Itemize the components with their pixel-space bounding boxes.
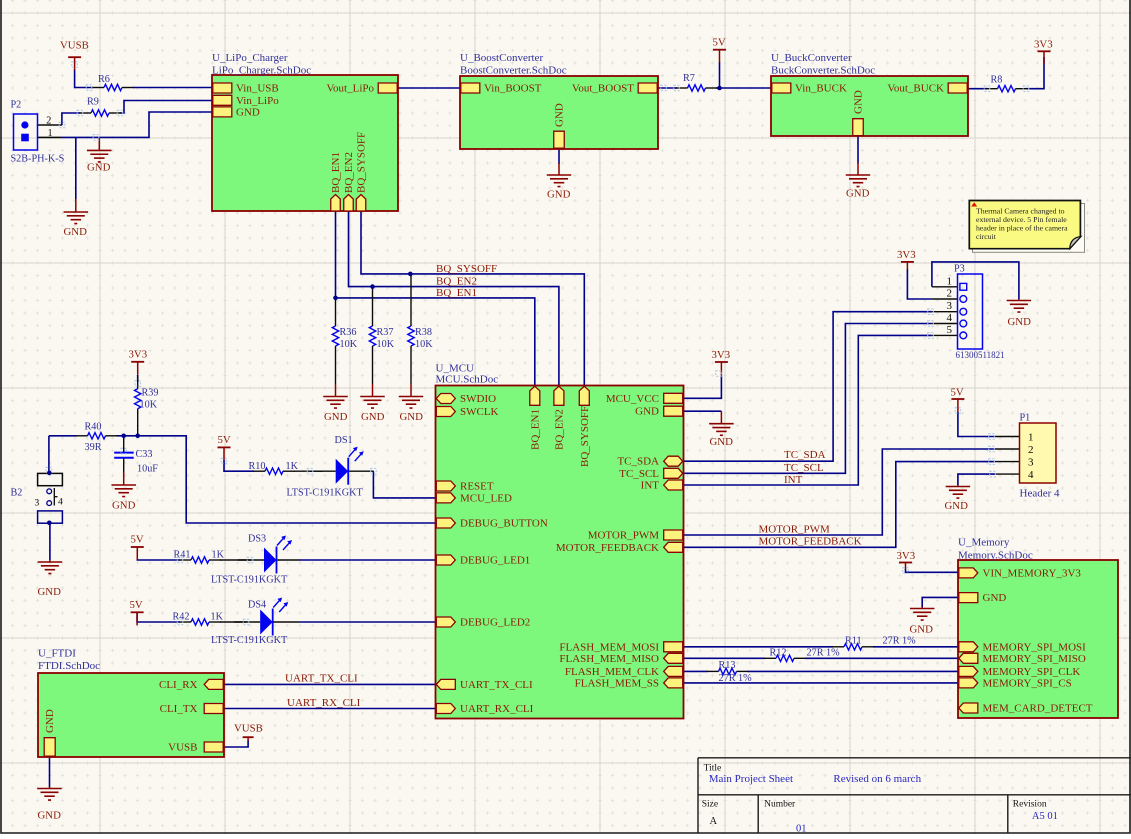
ground under buck <box>857 163 859 176</box>
svg-text:BQ_SYSOFF: BQ_SYSOFF <box>356 132 368 193</box>
wire 3V3 to VIN_MEMORY_3V3 <box>906 569 958 572</box>
entry GND memory <box>959 593 978 603</box>
svg-text:3V3: 3V3 <box>897 550 916 562</box>
entry VIN_MEMORY_3V3 <box>959 568 978 578</box>
svg-text:GND: GND <box>38 586 62 598</box>
junction R39 node <box>135 434 140 439</box>
wire Vout_BOOST to R7 to Vin_BUCK <box>658 87 677 89</box>
svg-text:LTST-C191KGKT: LTST-C191KGKT <box>211 575 288 586</box>
wire R40-C33-R39 node row <box>49 435 77 437</box>
sheet symbol U_BuckConverter <box>771 76 968 136</box>
wire P3 pin1 to GND <box>932 262 1019 299</box>
wire 5V to P1 pin1 <box>958 412 995 437</box>
wire memory GND <box>922 597 957 607</box>
power port VUSB FTDI <box>243 736 254 738</box>
sheet symbol U_BoostConverter <box>460 76 658 149</box>
wire MCU_VCC to 3V3 <box>684 375 722 398</box>
svg-text:MOTOR_PWM: MOTOR_PWM <box>759 524 831 536</box>
entry MEMORY_SPI_CLK <box>959 666 978 676</box>
svg-text:U_LiPo_Charger: U_LiPo_Charger <box>212 52 288 64</box>
resistor R6 <box>104 84 122 90</box>
wire P1 pin leads <box>995 436 1020 438</box>
svg-text:5V: 5V <box>130 599 143 611</box>
junction 5V-R7 <box>717 86 722 91</box>
svg-text:A: A <box>710 816 718 827</box>
svg-text:DS1: DS1 <box>335 435 353 446</box>
ground under R38 <box>410 384 412 397</box>
svg-text:3V3: 3V3 <box>897 249 916 261</box>
entry BQ_SYSOFF LiPo <box>356 195 366 212</box>
entry FLASH_MEM_MISO <box>664 653 683 663</box>
power port VUSB <box>68 56 81 58</box>
svg-text:TC_SCL: TC_SCL <box>619 468 659 480</box>
entry MOTOR_PWM <box>664 530 683 540</box>
resistor R8 <box>998 86 1016 92</box>
wire CLI_RX to UART_TX_CLI <box>224 683 436 685</box>
svg-text:GND: GND <box>324 411 348 423</box>
svg-text:RESET: RESET <box>460 481 494 493</box>
ground under R9 <box>98 137 100 150</box>
svg-text:C33: C33 <box>136 449 153 460</box>
svg-text:DEBUG_LED2: DEBUG_LED2 <box>460 617 530 629</box>
svg-text:MCU_LED: MCU_LED <box>460 492 512 504</box>
svg-text:39R: 39R <box>85 442 102 453</box>
wire BQ_EN2 column <box>349 211 559 386</box>
svg-text:FLASH_MEM_CLK: FLASH_MEM_CLK <box>565 666 659 678</box>
resistor R12 <box>776 655 794 661</box>
entry MCU_VCC <box>664 393 683 403</box>
svg-text:GND: GND <box>44 709 56 733</box>
svg-text:VUSB: VUSB <box>234 723 263 735</box>
resistor R7 <box>688 85 706 91</box>
svg-text:27R 1%: 27R 1% <box>719 673 753 684</box>
svg-text:GND: GND <box>846 188 870 200</box>
svg-text:BQ_EN2: BQ_EN2 <box>553 409 565 450</box>
svg-text:INT: INT <box>784 474 803 486</box>
entry UART_TX_CLI MCU <box>436 679 455 689</box>
svg-text:A5 01: A5 01 <box>1032 811 1058 822</box>
svg-text:S2B-PH-K-S: S2B-PH-K-S <box>11 154 65 165</box>
svg-text:U_Memory: U_Memory <box>958 537 1010 549</box>
power port 3V3 memory <box>899 562 912 564</box>
svg-text:DS4: DS4 <box>248 600 266 611</box>
entry CLI_RX <box>204 679 223 689</box>
svg-text:BQ_EN1: BQ_EN1 <box>330 152 342 193</box>
wire P1 pin4 to GND <box>958 474 995 485</box>
junction B2 top <box>47 471 52 476</box>
svg-text:Revision: Revision <box>1013 800 1047 810</box>
entry RESET <box>436 481 455 491</box>
svg-text:UART_RX_CLI: UART_RX_CLI <box>287 697 361 709</box>
svg-text:27R 1%: 27R 1% <box>883 636 917 647</box>
svg-text:27R 1%: 27R 1% <box>807 648 841 659</box>
svg-text:CLI_TX: CLI_TX <box>160 703 198 715</box>
svg-text:MCU.SchDoc: MCU.SchDoc <box>436 374 499 386</box>
svg-text:Number: Number <box>764 800 796 810</box>
svg-text:1K: 1K <box>211 612 224 623</box>
ground P3 pin1 <box>1018 299 1020 301</box>
svg-text:VUSB: VUSB <box>168 742 197 754</box>
svg-text:FLASH_MEM_SS: FLASH_MEM_SS <box>575 677 659 689</box>
svg-text:P2: P2 <box>11 100 22 111</box>
wire BQ_EN1 column <box>336 211 535 386</box>
svg-text:MEMORY_SPI_CS: MEMORY_SPI_CS <box>983 677 1072 689</box>
svg-text:R42: R42 <box>173 612 190 623</box>
entry Vin_BOOST <box>461 83 480 93</box>
svg-text:R13: R13 <box>719 660 736 671</box>
entry GND buck <box>853 119 864 136</box>
svg-text:MOTOR_PWM: MOTOR_PWM <box>588 530 660 542</box>
svg-text:Size: Size <box>702 800 718 810</box>
svg-text:VIN_MEMORY_3V3: VIN_MEMORY_3V3 <box>983 567 1082 579</box>
svg-text:3: 3 <box>35 499 40 509</box>
entry DEBUG_LED2 <box>436 617 455 627</box>
svg-text:10K: 10K <box>140 400 158 411</box>
svg-text:10uF: 10uF <box>137 464 158 475</box>
svg-text:2: 2 <box>46 115 51 126</box>
entry INT <box>664 480 683 490</box>
svg-text:5V: 5V <box>951 387 964 399</box>
ground under boost <box>558 163 560 175</box>
svg-text:GND: GND <box>38 810 62 822</box>
svg-text:DS3: DS3 <box>248 534 266 545</box>
svg-text:circuit: circuit <box>976 232 997 241</box>
wire 5V DS1 <box>224 460 254 471</box>
svg-text:U_FTDI: U_FTDI <box>38 648 76 660</box>
svg-text:BQ_SYSOFF: BQ_SYSOFF <box>436 263 497 275</box>
svg-text:R36: R36 <box>340 327 357 338</box>
svg-text:SWCLK: SWCLK <box>460 406 499 418</box>
entry BQ_EN2 MCU <box>554 386 564 405</box>
svg-text:5V: 5V <box>713 37 726 49</box>
svg-text:1K: 1K <box>212 550 225 561</box>
svg-text:01: 01 <box>796 824 807 835</box>
resistor R42 <box>191 619 209 625</box>
wire VUSB to R6 to Vin_USB <box>75 70 93 88</box>
svg-text:UART_TX_CLI: UART_TX_CLI <box>285 673 358 685</box>
svg-text:4: 4 <box>947 312 953 324</box>
entry TC_SDA <box>664 456 683 466</box>
entry GND FTDI <box>44 738 55 757</box>
power port 5V boost <box>713 49 726 51</box>
wire P2 pin1 to GND entry <box>38 136 62 138</box>
svg-text:R38: R38 <box>415 327 432 338</box>
svg-text:TC_SDA: TC_SDA <box>617 456 659 468</box>
svg-text:1: 1 <box>947 275 953 287</box>
wire DS3 to DEBUG_LED1 <box>299 559 436 561</box>
svg-text:P1: P1 <box>1020 413 1031 424</box>
entry MEMORY_SPI_MOSI <box>959 642 978 652</box>
svg-text:4: 4 <box>58 498 63 508</box>
wire INT to P3 pin5 <box>684 335 932 485</box>
ground MCU GND <box>720 411 722 424</box>
svg-text:BQ_EN2: BQ_EN2 <box>343 152 355 193</box>
wire FLASH_MEM_CLK R13 <box>684 670 708 672</box>
entry FLASH_MEM_CLK <box>664 666 683 676</box>
svg-text:4: 4 <box>1028 469 1034 481</box>
svg-text:Vout_BUCK: Vout_BUCK <box>887 83 944 95</box>
ground memory <box>921 607 923 609</box>
svg-text:2: 2 <box>1028 444 1034 456</box>
connector P3 <box>958 274 983 349</box>
resistor R10 <box>265 468 283 474</box>
svg-text:3V3: 3V3 <box>129 349 148 361</box>
svg-text:3: 3 <box>947 300 953 312</box>
svg-text:FTDI.SchDoc: FTDI.SchDoc <box>38 660 100 672</box>
header P1 <box>1020 423 1057 483</box>
wire B2 bottom to GND <box>49 523 51 560</box>
wire 5V DS4 <box>137 613 180 622</box>
svg-text:INT: INT <box>641 480 660 492</box>
ground under B2 <box>49 560 51 562</box>
svg-text:BQ_EN2: BQ_EN2 <box>436 276 477 288</box>
svg-text:GND: GND <box>710 436 734 448</box>
LED DS1 <box>310 470 336 472</box>
svg-text:Title: Title <box>704 764 722 774</box>
entry BQ_EN2 LiPo <box>344 195 354 212</box>
svg-text:GND: GND <box>1008 316 1032 328</box>
svg-text:Vin_BOOST: Vin_BOOST <box>484 83 542 95</box>
svg-text:R10: R10 <box>249 461 266 472</box>
ground FTDI <box>49 787 51 789</box>
power port 3V3 MCU_VCC <box>715 361 728 363</box>
ground P1 pin4 <box>957 485 959 487</box>
sheet symbol U_LiPo_Charger <box>212 75 398 211</box>
svg-text:MOTOR_FEEDBACK: MOTOR_FEEDBACK <box>759 536 862 548</box>
svg-text:Memory.SchDoc: Memory.SchDoc <box>958 550 1033 562</box>
ground under R36 <box>335 384 337 397</box>
resistor R9 <box>91 110 109 116</box>
entry SWDIO <box>436 394 455 404</box>
wire Vout_BUCK to R8 to 3V3 <box>968 88 987 90</box>
entry MOTOR_FEEDBACK <box>664 542 683 552</box>
wire boost GND <box>558 149 560 164</box>
power port 5V P1 <box>951 398 964 400</box>
svg-text:GND: GND <box>983 592 1007 604</box>
entry TC_SCL <box>664 468 683 478</box>
svg-text:DEBUG_BUTTON: DEBUG_BUTTON <box>460 518 548 530</box>
svg-text:MOTOR_FEEDBACK: MOTOR_FEEDBACK <box>556 542 659 554</box>
svg-text:BuckConverter.SchDoc: BuckConverter.SchDoc <box>771 65 875 77</box>
svg-text:Vin_LiPo: Vin_LiPo <box>236 95 279 107</box>
svg-text:3V3: 3V3 <box>712 349 731 361</box>
wire TC_SCL to P3 pin4 <box>684 324 932 474</box>
title block frame <box>698 757 1131 759</box>
wire MCU GND <box>684 410 722 412</box>
sheet symbol U_FTDI <box>38 673 224 757</box>
entry CLI_TX <box>204 704 223 714</box>
junction BQ_SYSOFF-R38 <box>408 272 413 277</box>
svg-text:1: 1 <box>1028 431 1034 443</box>
svg-text:GND: GND <box>910 624 934 636</box>
entry Vin_BUCK <box>772 83 791 93</box>
power port 5V DS1 <box>218 446 231 448</box>
entry Vout_BOOST <box>638 83 657 93</box>
wire pin1 down to GND <box>75 137 77 199</box>
svg-text:Revised on 6 march: Revised on 6 march <box>833 773 921 785</box>
svg-text:1K: 1K <box>286 461 299 472</box>
entry GND boost <box>554 131 565 148</box>
entry GND LiPo <box>213 107 232 117</box>
push button B2 <box>38 473 63 485</box>
entry VUSB FTDI <box>204 742 223 752</box>
svg-text:GND: GND <box>361 411 385 423</box>
junction BQ_EN2-R37 <box>370 284 375 289</box>
junction B2 bottom <box>47 521 52 526</box>
ground under C33 <box>123 473 125 486</box>
resistor R36 <box>332 326 338 346</box>
svg-text:LTST-C191KGKT: LTST-C191KGKT <box>287 488 364 499</box>
wire FLASH_MEM_SS <box>684 682 958 684</box>
wire 5V DS3 <box>137 559 180 560</box>
svg-text:MEMORY_SPI_MOSI: MEMORY_SPI_MOSI <box>983 641 1087 653</box>
svg-text:U_BoostConverter: U_BoostConverter <box>460 52 543 64</box>
svg-text:GND: GND <box>236 106 260 118</box>
svg-text:5V: 5V <box>131 534 144 546</box>
svg-text:R39: R39 <box>142 388 159 399</box>
svg-text:R9: R9 <box>87 97 99 108</box>
svg-text:GND: GND <box>547 189 571 201</box>
svg-text:TC_SDA: TC_SDA <box>784 449 826 461</box>
resistor R41 <box>191 557 209 563</box>
power port 3V3 P3 <box>901 261 914 263</box>
svg-text:B2: B2 <box>11 488 23 499</box>
svg-text:VUSB: VUSB <box>60 40 89 52</box>
svg-text:MCU_VCC: MCU_VCC <box>606 393 659 405</box>
wire P3 pin leads <box>932 286 958 288</box>
resistor R13 <box>719 668 737 674</box>
entry MEMORY_SPI_CS <box>959 678 978 688</box>
svg-text:P3: P3 <box>954 264 965 275</box>
power port 3V3 buck <box>1038 50 1051 52</box>
entry Vin_LiPo <box>213 95 232 105</box>
svg-text:DEBUG_LED1: DEBUG_LED1 <box>460 555 530 567</box>
entry UART_RX_CLI MCU <box>436 704 455 714</box>
wire 3V3 to P3 pin2 <box>907 269 932 299</box>
junction BQ_EN1-R36 <box>333 296 338 301</box>
resistor R11 <box>844 644 862 650</box>
entry BQ_SYSOFF MCU <box>579 386 589 405</box>
svg-text:SWDIO: SWDIO <box>460 393 496 405</box>
svg-text:Header 4: Header 4 <box>1020 488 1061 500</box>
svg-text:MEMORY_SPI_CLK: MEMORY_SPI_CLK <box>983 666 1081 678</box>
svg-text:10K: 10K <box>340 339 358 350</box>
entry Vout_LiPo <box>378 83 397 93</box>
svg-text:UART_RX_CLI: UART_RX_CLI <box>460 703 534 715</box>
wire FTDI VUSB <box>224 741 248 748</box>
svg-text:GND: GND <box>554 103 566 127</box>
entry BQ_EN1 LiPo <box>331 195 341 212</box>
svg-text:R8: R8 <box>991 75 1003 86</box>
svg-text:2: 2 <box>947 288 953 300</box>
entry MEM_CARD_DETECT <box>959 703 978 713</box>
svg-text:CLI_RX: CLI_RX <box>159 679 198 691</box>
wire FLASH_MEM_MOSI R11 <box>684 646 834 648</box>
svg-text:UART_TX_CLI: UART_TX_CLI <box>460 679 533 691</box>
ground under R37 <box>372 384 374 397</box>
wire BQ_SYSOFF column <box>361 211 584 386</box>
svg-text:R37: R37 <box>377 327 394 338</box>
wire 5V to R7 node <box>719 62 721 88</box>
wire FLASH_MEM_MISO R12 <box>684 657 766 659</box>
svg-text:GND: GND <box>112 500 136 512</box>
svg-text:5: 5 <box>947 324 953 336</box>
connection marks <box>72 62 78 68</box>
svg-text:1: 1 <box>48 128 53 139</box>
LED DS4 <box>234 621 260 623</box>
svg-text:GND: GND <box>87 162 111 174</box>
wire DS4 to DEBUG_LED2 <box>300 621 436 623</box>
entry FLASH_MEM_SS <box>664 678 683 688</box>
svg-text:3: 3 <box>1028 456 1034 468</box>
sheet symbol U_MCU <box>436 386 684 719</box>
svg-text:U_BuckConverter: U_BuckConverter <box>771 52 852 64</box>
wire R39 3V3 <box>137 375 139 382</box>
svg-text:GND: GND <box>64 226 88 238</box>
svg-text:FLASH_MEM_MOSI: FLASH_MEM_MOSI <box>559 641 659 653</box>
note thermal camera <box>973 204 1085 253</box>
entry DEBUG_LED1 <box>436 555 455 565</box>
wire MOTOR_PWM to P1 pin2 <box>684 449 996 535</box>
entry MCU_LED <box>436 493 455 503</box>
LED DS3 <box>238 559 264 561</box>
power port 5V DS3 <box>131 546 144 548</box>
entry DEBUG_BUTTON <box>436 518 455 528</box>
svg-text:MEMORY_SPI_MISO: MEMORY_SPI_MISO <box>983 653 1086 665</box>
svg-text:Vout_BOOST: Vout_BOOST <box>572 83 634 95</box>
wire TC_SDA to P3 pin3 <box>684 312 932 462</box>
wire DS1 to MCU_LED <box>373 471 435 498</box>
entry Vout_BUCK <box>948 83 967 93</box>
entry FLASH_MEM_MOSI <box>664 642 683 652</box>
svg-text:Vin_USB: Vin_USB <box>236 83 279 95</box>
svg-text:FLASH_MEM_MISO: FLASH_MEM_MISO <box>559 653 659 665</box>
svg-text:BQ_EN1: BQ_EN1 <box>529 409 541 450</box>
resistor R38 <box>408 326 414 346</box>
wire buck GND <box>857 137 859 164</box>
svg-text:R41: R41 <box>174 550 191 561</box>
svg-text:R7: R7 <box>683 73 695 84</box>
svg-text:3V3: 3V3 <box>1034 39 1053 51</box>
power port 5V DS4 <box>131 611 144 613</box>
resistor R40 <box>88 433 106 439</box>
entry GND MCU <box>664 406 683 416</box>
resistor R39 <box>135 389 141 409</box>
wire B2 top <box>48 436 50 473</box>
svg-text:MEM_CARD_DETECT: MEM_CARD_DETECT <box>983 703 1093 715</box>
svg-text:R6: R6 <box>98 74 110 85</box>
connector P2 <box>14 114 38 150</box>
svg-text:BoostConverter.SchDoc: BoostConverter.SchDoc <box>460 65 567 77</box>
svg-text:5V: 5V <box>218 434 231 446</box>
sheet symbol U_Memory <box>958 560 1118 718</box>
svg-text:10K: 10K <box>415 339 433 350</box>
svg-text:Main Project Sheet: Main Project Sheet <box>709 773 793 785</box>
svg-text:LiPo_Charger.SchDoc: LiPo_Charger.SchDoc <box>212 65 311 77</box>
svg-text:GND: GND <box>400 411 424 423</box>
wire FTDI GND <box>49 757 51 787</box>
entry Vin_USB <box>213 83 232 93</box>
capacitor C33 <box>123 436 125 452</box>
power port 3V3 R39 <box>131 361 144 363</box>
entry SWCLK <box>436 407 455 417</box>
svg-text:Vout_LiPo: Vout_LiPo <box>327 83 375 95</box>
svg-text:R12: R12 <box>770 648 787 659</box>
svg-text:R40: R40 <box>85 422 102 433</box>
svg-text:GND: GND <box>945 500 969 512</box>
svg-text:BQ_EN1: BQ_EN1 <box>436 287 477 299</box>
ground under P2 <box>75 199 77 212</box>
